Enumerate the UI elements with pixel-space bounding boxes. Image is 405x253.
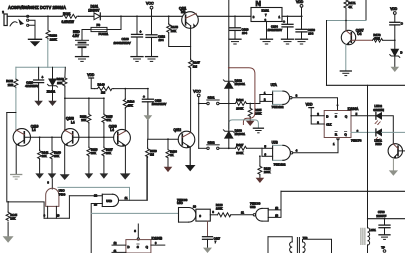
svg-text:10K: 10K (10, 217, 15, 221)
wire (stub from top edge) (365, 0, 367, 21)
wire (Q107 emitter) (345, 45, 347, 71)
switch S102 (199, 140, 236, 149)
connector J1 (AC jack) (2, 10, 29, 26)
resistor R128 (258, 155, 271, 177)
zener D104 (390, 49, 403, 66)
svg-text:R149: R149 (98, 82, 106, 86)
svg-text:U7B: U7B (272, 140, 278, 144)
power VDD (rail A) (87, 73, 95, 88)
wire (rail A) (114, 88, 148, 90)
capacitor C736 (376, 210, 390, 234)
wire (U5D pin13 riser) (91, 204, 102, 253)
wire (block bottom row) (327, 84, 405, 86)
resistor R142 (6, 78, 18, 88)
resistor R139 (Q112 base to gate) (146, 139, 158, 200)
svg-text:1N4001: 1N4001 (235, 82, 246, 86)
wire (U5B riser to long rail) (280, 191, 282, 210)
wire (282, 15, 302, 17)
svg-text:2K: 2K (170, 153, 174, 157)
ground arrow (C126) (34, 101, 43, 106)
wire (long bottom rail) (281, 190, 405, 192)
ground (C109) (296, 39, 308, 44)
wire (Q111 emitter to Q112 collector) (190, 26, 192, 59)
capacitor C109 (296, 16, 315, 38)
resistor R171 (344, 0, 356, 21)
wire (199, 15, 252, 17)
gate U5D (94, 193, 128, 206)
transistor Q108 (61, 117, 78, 146)
resistor R133 (46, 15, 57, 67)
wire (rail B from Q108 collector line) (64, 97, 104, 99)
capacitor C104 (268, 15, 294, 38)
wire (Q110 emitter) (15, 145, 17, 174)
svg-text:11: 11 (125, 196, 128, 200)
title text (8, 5, 66, 11)
svg-text:N: N (256, 0, 261, 8)
resistor R141 (38, 136, 49, 173)
wire (81, 47, 83, 56)
svg-text:U5D: U5D (106, 199, 112, 203)
ground arrow (R135) (246, 121, 255, 126)
resistor R134 (235, 98, 260, 110)
ground arrow (C113) (144, 115, 153, 120)
resistor R138 (166, 138, 177, 166)
NAND gate U7B (272, 140, 293, 166)
svg-text:12: 12 (94, 193, 98, 197)
svg-text:IC106B: IC106B (152, 236, 163, 240)
svg-text:R101: R101 (63, 12, 71, 16)
svg-text:U5B: U5B (250, 205, 256, 209)
zener ZD101 (47, 67, 58, 100)
svg-text:200K: 200K (264, 170, 271, 174)
svg-text:20K: 20K (106, 151, 111, 155)
ground (C736) (379, 235, 390, 240)
capacitor C112 (146, 16, 165, 56)
wire (teal row) (327, 20, 367, 22)
capacitor C107 (390, 21, 403, 49)
wire (main AC rail) (7, 15, 61, 17)
svg-text:1M: 1M (193, 64, 198, 68)
resistor R127 (235, 143, 262, 155)
svg-text:4K: 4K (348, 5, 352, 9)
svg-text:74HC74: 74HC74 (351, 139, 362, 143)
ground arrow (C117) (203, 248, 212, 253)
gate U6C (vertical AND) (44, 180, 66, 218)
svg-text:IC106A: IC106A (348, 107, 360, 111)
svg-text:VDD: VDD (87, 73, 95, 77)
ground arrow (Q113) (389, 170, 398, 175)
svg-text:20K: 20K (171, 29, 176, 33)
svg-text:2M: 2M (101, 91, 106, 95)
svg-text:1000MF/16V: 1000MF/16V (114, 41, 131, 45)
power VCC (switch rail) (193, 90, 201, 149)
wire (rail from top to D102) (228, 0, 230, 81)
wire (to Q112 base) (148, 120, 178, 139)
power VCC (146, 2, 154, 18)
power VDD (right column) (390, 7, 398, 22)
svg-text:L4: L4 (110, 128, 114, 132)
resistor R126 (216, 203, 253, 217)
transistor Q112 (174, 128, 195, 148)
svg-text:104: 104 (242, 31, 247, 35)
wire (base row Q110-Q108) (24, 136, 61, 138)
svg-text:7400: 7400 (59, 192, 66, 196)
svg-text:TP: TP (381, 245, 385, 249)
svg-text:+: + (42, 76, 44, 80)
test point TP (381, 245, 386, 252)
inductor L101 (361, 219, 376, 253)
ground arrow (ZD101) (48, 101, 57, 106)
transistor Q110 (13, 124, 38, 146)
resistor R147 (189, 59, 201, 131)
resistor R135 (248, 103, 262, 121)
svg-text:1M: 1M (150, 152, 155, 156)
wire (teal link U6C to U5D output) (58, 187, 130, 200)
svg-text:U7A: U7A (271, 83, 278, 87)
svg-text:47K: 47K (127, 103, 132, 107)
ground arrow (R128) (256, 178, 265, 183)
ground arrow (R116) (85, 173, 94, 178)
wire (long teal row) (91, 212, 178, 214)
wire (base row Q108-Q109) (73, 136, 114, 138)
resistor R173 (Q107 base) (351, 33, 395, 42)
ground (C106) (131, 57, 143, 62)
svg-text:47MF/16V: 47MF/16V (25, 84, 38, 88)
svg-text:S102: S102 (208, 140, 215, 144)
svg-text:VDD: VDD (390, 7, 398, 11)
ground (battery) (76, 57, 89, 62)
flip-flop IC106B (112, 224, 165, 253)
svg-text:200K: 200K (236, 106, 243, 110)
ground (C104) (282, 39, 294, 44)
wire (Q108 emitter) (64, 145, 66, 174)
svg-text:D: D (400, 51, 402, 55)
svg-text:R127: R127 (236, 143, 244, 147)
svg-text:100MF/16V: 100MF/16V (152, 102, 167, 106)
wire (U7A input ladder) (260, 91, 273, 104)
wire (U7B input ladder) (262, 145, 273, 157)
svg-text:104: 104 (308, 32, 313, 36)
svg-text:+: + (143, 95, 145, 99)
svg-text:C: C (401, 21, 403, 25)
wire (right vertical rail) (367, 85, 369, 218)
svg-text:6.8R/1W: 6.8R/1W (62, 20, 74, 24)
ground (teal loop) (253, 128, 263, 133)
resistor R148 (167, 15, 191, 46)
svg-text:74HC132: 74HC132 (272, 105, 284, 109)
svg-text:10K: 10K (42, 154, 47, 158)
diode D101 (88, 5, 100, 20)
svg-text:CLK: CLK (326, 123, 331, 127)
svg-text:74HC132: 74HC132 (274, 163, 286, 167)
LED LED1 RED (351, 129, 383, 146)
transistor Q109 (109, 124, 131, 146)
fuse F0 (91, 23, 109, 36)
svg-text:R134: R134 (236, 98, 244, 102)
wire (jack to ground) (29, 20, 35, 39)
svg-text:1N4007: 1N4007 (88, 8, 99, 12)
svg-text:104: 104 (159, 38, 164, 42)
ground arrow (Q109) (120, 173, 131, 179)
wire (rail corner to edge) (368, 218, 405, 220)
svg-text:1N4001: 1N4001 (235, 132, 246, 136)
transistor Q111 (179, 7, 198, 29)
svg-text:U5C: U5C (177, 201, 183, 205)
resistor R145 (6, 201, 17, 236)
zener D102 (223, 78, 245, 103)
resistor R113 (80, 97, 91, 138)
battery RED 4.5V (73, 30, 89, 47)
svg-text:2200PF: 2200PF (376, 214, 386, 218)
ground arrow (R145) (3, 236, 14, 243)
resistor R149 (95, 82, 114, 94)
LED LED2 GREEN (351, 104, 384, 124)
ground (Q110 emitter) (11, 175, 22, 180)
ground arrow (R140, feeds U6C) (48, 173, 57, 178)
svg-text:20K: 20K (81, 118, 86, 122)
wire (Q113 emitter) (392, 158, 394, 170)
ground (C112) (146, 57, 158, 62)
wire (U7B output to FF1 reset) (293, 138, 339, 153)
gate U5C (177, 198, 218, 222)
svg-text:L4: L4 (32, 128, 36, 132)
wire (block left side) (326, 21, 328, 86)
flip-flop IC106A (317, 107, 362, 143)
ground (jack) (29, 39, 42, 46)
ground (C110) (229, 39, 241, 44)
svg-text:200K: 200K (236, 151, 243, 155)
svg-text:+: + (283, 20, 285, 24)
IC regulator IC101 (251, 0, 282, 39)
ground arrow (R141) (35, 173, 44, 178)
svg-text:L101: L101 (370, 228, 377, 232)
capacitor C117 (203, 221, 221, 247)
svg-text:T10: T10 (303, 236, 308, 240)
svg-text:100K: 100K (216, 207, 223, 211)
wire (U7A output to FF1 set) (292, 93, 339, 110)
svg-text:100MF/16V: 100MF/16V (268, 28, 283, 32)
svg-text:C4: C4 (357, 32, 361, 36)
svg-text:S: S (137, 245, 139, 249)
resistor R101 (61, 12, 79, 24)
svg-text:S: S (335, 114, 337, 118)
resistor R114 (Q109 collector load) (123, 88, 134, 131)
wire (LED1 row to edge) (382, 131, 405, 133)
svg-text:ZD101: ZD101 (47, 90, 56, 94)
svg-text:AC89V/50/60HZ DCTV 250MA: AC89V/50/60HZ DCTV 250MA (8, 5, 66, 11)
capacitor C126 (25, 67, 43, 100)
capacitor C113 (142, 88, 166, 115)
wire (teal loop to ground) (229, 120, 259, 129)
wire (LED2 to Q113 collector) (382, 116, 394, 144)
svg-text:220K: 220K (50, 37, 57, 41)
svg-text:47K: 47K (106, 118, 111, 122)
ground arrow (R138) (164, 167, 173, 172)
svg-text:50E: 50E (374, 36, 379, 40)
resistor R140 (50, 136, 61, 173)
gate U5B (mirrored NAND) (241, 201, 281, 221)
resistor R107 (102, 137, 113, 173)
wire (100, 15, 182, 17)
svg-text:M8: M8 (181, 10, 186, 14)
wire (feedback loop, maroon) (229, 68, 255, 125)
ground arrow (R107) (100, 173, 109, 178)
svg-text:10K: 10K (54, 154, 59, 158)
wire (U5D output) (119, 157, 147, 200)
svg-text:4.5V: 4.5V (73, 34, 80, 38)
svg-text:S101: S101 (208, 96, 215, 100)
wire (bottom-left loop) (8, 196, 102, 218)
ground arrow (Q108) (60, 174, 70, 180)
wire (left outer rail) (7, 67, 16, 202)
resistor R103 (57, 67, 67, 131)
transformer T101 (268, 236, 332, 253)
wire (to U6C input) (51, 179, 53, 189)
svg-text:IC101: IC101 (262, 9, 270, 13)
wire (79, 15, 95, 17)
svg-text:VCC: VCC (146, 2, 154, 6)
transistor Q107 (341, 21, 364, 46)
svg-text:Q112: Q112 (174, 128, 182, 132)
ground (IC101) (261, 39, 273, 44)
power VDD (FF1) (306, 103, 325, 124)
capacitor C110 (230, 15, 249, 38)
transistor Q113 (388, 144, 405, 159)
resistor R115 (102, 97, 113, 138)
svg-text:10K: 10K (57, 81, 62, 85)
svg-text:200K: 200K (255, 112, 262, 116)
ground arrow (Q112) (185, 165, 196, 171)
svg-text:11: 11 (241, 210, 244, 214)
wire (diode junction down to fuse) (107, 16, 121, 29)
svg-text:VDD: VDD (306, 103, 314, 107)
ground arrow (D104) (391, 67, 400, 72)
wire (Q112 emitter) (189, 147, 191, 165)
svg-text:VCC: VCC (193, 90, 201, 94)
svg-text:20K: 20K (91, 151, 96, 155)
wire (Q109 emitter) (124, 146, 126, 173)
power VDD (296, 0, 304, 17)
resistor R116 (87, 137, 98, 173)
ground (Q107) (340, 71, 351, 76)
wire (fuse to battery) (82, 30, 91, 41)
svg-text:GREEN: GREEN (373, 108, 384, 112)
wire (top rail of left cell, teal) (16, 66, 65, 68)
NAND gate U7A (271, 83, 292, 109)
zener D103 (223, 104, 245, 149)
svg-text:2M2: 2M2 (8, 83, 14, 87)
switch S101 (198, 96, 236, 105)
capacitor C106 (114, 15, 143, 56)
svg-text:VDD: VDD (296, 0, 304, 4)
svg-text:RED: RED (375, 142, 382, 146)
svg-text:F0: F0 (97, 23, 101, 27)
svg-text:FUSE1: FUSE1 (99, 32, 109, 36)
svg-text:L4: L4 (71, 120, 75, 124)
svg-text:+: + (140, 30, 142, 34)
